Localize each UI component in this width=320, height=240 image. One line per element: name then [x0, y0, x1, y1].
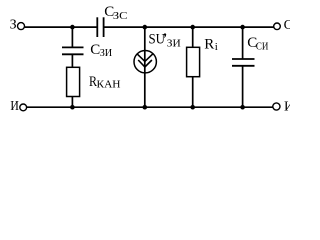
wire: top wire down into current source [144, 27, 146, 61]
svg-text:КАН: КАН [97, 79, 121, 91]
svg-text:i: i [215, 41, 218, 53]
svg-text:R: R [204, 37, 214, 53]
wire: R_i to bottom wire [192, 77, 194, 108]
label C_СИ [247, 35, 268, 52]
wire: C_СИ to bottom wire [242, 66, 244, 107]
svg-text:И: И [10, 99, 19, 113]
svg-text:SU: SU [149, 32, 166, 48]
label SU'ЗИ [149, 32, 181, 50]
label C_ЗИ [90, 42, 112, 59]
label R_КАН [89, 74, 121, 90]
node: bottom of C_СИ branch [240, 105, 245, 110]
terminal С (drain) [274, 18, 293, 33]
current source arrow chevron 2 [138, 60, 152, 67]
svg-text:И: И [284, 99, 290, 113]
node: top of R_i branch [190, 25, 195, 30]
current source arrow chevron 1 [137, 54, 153, 62]
wire: stub from top wire down to C_СИ [242, 27, 244, 59]
node: top of C_СИ branch [240, 25, 245, 30]
label R_i [204, 37, 218, 54]
wire: current source to bottom wire [144, 61, 146, 107]
wire top-right: C_ЗС to drain terminal [104, 26, 273, 28]
node: top of C_ЗИ branch [70, 25, 75, 30]
wire: stub from top wire down to C_ЗИ [71, 27, 73, 47]
node: top of current source branch [143, 25, 148, 30]
node: bottom of R_КАН branch [70, 105, 75, 110]
wire: C_ЗИ to R_КАН [71, 54, 73, 67]
capacitor C_ЗС [97, 17, 103, 37]
wire bottom: source terminal to right terminal [27, 106, 273, 108]
wire top-left: gate terminal to C_ЗС [25, 26, 97, 28]
terminal З (gate) [10, 18, 25, 33]
svg-text:ЗС: ЗС [113, 10, 128, 22]
svg-text:СИ: СИ [256, 40, 269, 52]
terminal И (source, bottom-left) [10, 99, 26, 114]
wire: R_КАН to bottom wire [71, 97, 73, 108]
current source U1 circle [134, 51, 156, 73]
resistor R_КАН [67, 67, 80, 96]
svg-text:С: С [284, 18, 290, 33]
terminal И (source, bottom-right) [273, 99, 294, 114]
svg-text:З: З [10, 18, 17, 33]
svg-text:ЗИ: ЗИ [100, 47, 113, 59]
node: bottom of current source branch [143, 105, 148, 110]
capacitor C_СИ [232, 59, 255, 66]
capacitor C_ЗИ [62, 47, 84, 54]
label C_ЗС [104, 4, 127, 22]
svg-text:ЗИ: ЗИ [167, 37, 181, 49]
node: bottom of R_i branch [190, 105, 195, 110]
resistor R_i [187, 47, 200, 76]
wire: stub from top wire down to R_i [192, 27, 194, 47]
